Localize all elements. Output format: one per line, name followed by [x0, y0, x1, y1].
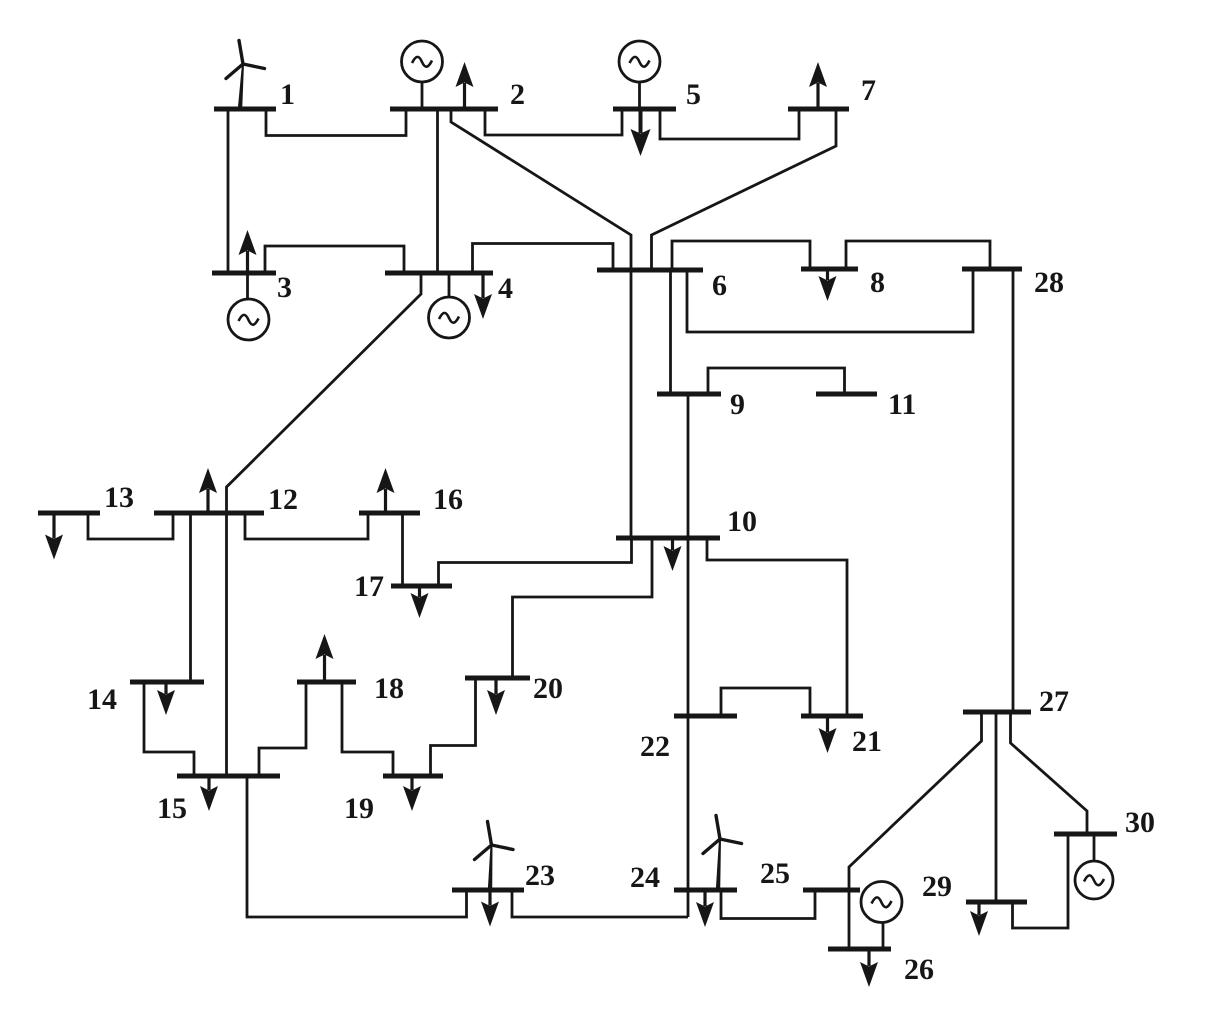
svg-text:10: 10	[727, 505, 757, 538]
svg-text:30: 30	[1125, 806, 1155, 839]
svg-text:21: 21	[852, 725, 882, 758]
svg-text:20: 20	[533, 672, 563, 705]
svg-text:19: 19	[344, 792, 374, 825]
svg-text:29: 29	[922, 870, 952, 903]
svg-text:4: 4	[498, 272, 513, 305]
svg-text:1: 1	[280, 78, 295, 111]
svg-text:6: 6	[712, 269, 727, 302]
svg-text:23: 23	[525, 859, 555, 892]
svg-text:2: 2	[510, 78, 525, 111]
svg-text:13: 13	[104, 481, 134, 514]
svg-text:3: 3	[277, 271, 292, 304]
svg-text:16: 16	[433, 483, 463, 516]
svg-text:28: 28	[1034, 266, 1064, 299]
svg-text:5: 5	[686, 78, 701, 111]
svg-text:17: 17	[354, 570, 384, 603]
svg-text:25: 25	[760, 857, 790, 890]
svg-text:14: 14	[87, 683, 117, 716]
svg-text:15: 15	[157, 792, 187, 825]
svg-text:18: 18	[374, 672, 404, 705]
svg-text:27: 27	[1039, 685, 1069, 718]
svg-text:22: 22	[640, 730, 670, 763]
svg-text:26: 26	[904, 953, 934, 986]
svg-text:9: 9	[730, 388, 745, 421]
svg-text:11: 11	[888, 388, 916, 421]
svg-text:8: 8	[870, 266, 885, 299]
svg-text:7: 7	[861, 74, 876, 107]
svg-text:24: 24	[630, 861, 660, 894]
svg-text:12: 12	[268, 483, 298, 516]
